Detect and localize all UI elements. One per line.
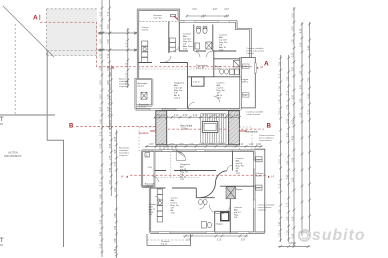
ripostiglio labels xyxy=(137,82,148,88)
svg-text:l-l': l-l' xyxy=(272,174,275,178)
svg-text:3.10: 3.10 xyxy=(110,71,112,76)
envelope white core pass xyxy=(136,10,251,110)
svg-text:0.90: 0.90 xyxy=(101,207,103,212)
svg-text:2.10: 2.10 xyxy=(101,169,103,174)
svg-text:3.10: 3.10 xyxy=(108,11,110,16)
annotation camino lower right xyxy=(258,203,276,211)
left edge reference marks xyxy=(0,117,4,245)
svg-text:mq 9.1: mq 9.1 xyxy=(142,29,149,31)
svg-text:A: A xyxy=(264,60,269,67)
door arcs upper xyxy=(166,45,220,108)
svg-text:0.30: 0.30 xyxy=(293,52,295,57)
svg-text:scoperta: scoperta xyxy=(119,85,128,88)
camera left wall xyxy=(203,77,205,86)
svg-text:0.90: 0.90 xyxy=(101,11,103,16)
svg-text:3.97: 3.97 xyxy=(287,132,289,137)
soggiorno right wall xyxy=(187,63,189,110)
camera top divider xyxy=(232,151,234,171)
svg-text:l-l': l-l' xyxy=(121,174,124,178)
envelope double walls dark pass xyxy=(136,10,251,110)
bagno label xyxy=(215,66,222,71)
room labels upper apartment xyxy=(153,14,162,20)
svg-text:3.97: 3.97 xyxy=(149,144,154,146)
loggia inner wall xyxy=(239,58,241,110)
svg-text:fumaria: fumaria xyxy=(247,52,255,55)
svg-text:0.90: 0.90 xyxy=(293,233,295,238)
section I-I dashed line xyxy=(130,174,266,176)
kitchen left wall xyxy=(142,187,150,233)
svg-text:5.17 m: 5.17 m xyxy=(139,107,146,109)
svg-text:2.45: 2.45 xyxy=(101,231,103,236)
svg-text:2.97: 2.97 xyxy=(101,94,103,99)
right pier hatched xyxy=(229,111,240,145)
bottom wall xyxy=(136,108,241,110)
svg-text:4.35: 4.35 xyxy=(110,95,112,100)
svg-text:2.10: 2.10 xyxy=(287,90,289,95)
svg-text:2.45: 2.45 xyxy=(110,167,112,172)
svg-text:4.35: 4.35 xyxy=(115,136,117,141)
svg-text:2.10: 2.10 xyxy=(287,202,289,207)
svg-text:3.97: 3.97 xyxy=(241,240,246,242)
envelope double walls dark pass xyxy=(142,151,265,233)
svg-text:0.30: 0.30 xyxy=(256,144,261,146)
svg-text:1.50: 1.50 xyxy=(110,83,112,88)
svg-text:B: B xyxy=(69,124,74,130)
svg-text:1/8: 1/8 xyxy=(234,217,238,219)
pensilina red arrow left xyxy=(150,130,157,132)
svg-text:A: A xyxy=(33,15,38,22)
svg-text:0.30: 0.30 xyxy=(115,161,117,166)
svg-text:0.30: 0.30 xyxy=(101,119,103,124)
svg-text:3.97: 3.97 xyxy=(108,24,110,29)
svg-text:scoperta: scoperta xyxy=(258,208,267,211)
svg-text:1.50: 1.50 xyxy=(110,107,112,112)
bath top-left wall xyxy=(196,197,214,199)
dimension ticks and numbers xyxy=(99,7,311,257)
loggia inner wall xyxy=(253,151,255,233)
red terrace arrow top xyxy=(174,16,178,20)
cucina top wall xyxy=(150,187,196,189)
svg-text:1.20: 1.20 xyxy=(301,70,303,75)
svg-text:0.30: 0.30 xyxy=(287,104,289,109)
svg-text:canna fumaria: canna fumaria xyxy=(246,113,261,116)
bagno left wall xyxy=(213,51,215,77)
svg-text:2.45: 2.45 xyxy=(161,115,166,117)
section A-A dashed line xyxy=(40,22,253,66)
svg-text:3.97: 3.97 xyxy=(110,179,112,184)
svg-text:3.10: 3.10 xyxy=(227,115,232,117)
svg-text:3.97: 3.97 xyxy=(213,9,218,11)
svg-text:▲: ▲ xyxy=(267,175,270,179)
svg-text:1.50: 1.50 xyxy=(209,144,214,146)
svg-text:1.80: 1.80 xyxy=(179,144,184,146)
svg-text:3.10: 3.10 xyxy=(239,144,244,146)
hall wall y51 xyxy=(179,50,236,52)
svg-text:4.85 m: 4.85 m xyxy=(242,82,249,84)
left pier hatched xyxy=(156,111,167,145)
fixtures lower apartment xyxy=(145,153,262,229)
svg-text:Bagno: Bagno xyxy=(236,189,243,191)
svg-text:1.50: 1.50 xyxy=(287,76,289,81)
svg-text:3.10: 3.10 xyxy=(174,115,179,117)
svg-text:2.10: 2.10 xyxy=(127,42,129,47)
stair steps xyxy=(201,114,226,143)
svg-text:C: C xyxy=(146,153,148,157)
bagno top wall xyxy=(214,58,241,60)
svg-text:0.30: 0.30 xyxy=(108,39,110,44)
kitchen-soggiorno wall xyxy=(138,62,188,64)
svg-text:1.05: 1.05 xyxy=(127,62,129,67)
ripostiglio room double wall xyxy=(136,79,153,109)
svg-text:1.40: 1.40 xyxy=(243,95,248,97)
svg-text:4.35: 4.35 xyxy=(155,115,160,117)
windows upper (double lines) xyxy=(150,21,256,111)
svg-text:2.97: 2.97 xyxy=(101,80,103,85)
svg-text:2.97: 2.97 xyxy=(293,26,295,31)
kitchen divider wall xyxy=(168,22,170,54)
svg-text:lvl: lvl xyxy=(261,65,264,69)
svg-text:1/12: 1/12 xyxy=(183,49,188,51)
svg-text:0.30: 0.30 xyxy=(127,72,129,77)
svg-text:1/12: 1/12 xyxy=(236,173,241,175)
terrace bottom xyxy=(147,234,191,246)
svg-text:3.10: 3.10 xyxy=(293,13,295,18)
soggiorno label xyxy=(174,82,185,100)
pensilina red arrow right xyxy=(240,130,248,132)
svg-text:0.30: 0.30 xyxy=(101,219,103,224)
closet box xyxy=(192,77,205,86)
door arcs lower xyxy=(152,165,232,214)
svg-text:3.10: 3.10 xyxy=(101,181,103,186)
svg-text:▲: ▲ xyxy=(126,175,129,179)
svg-text:3.97: 3.97 xyxy=(192,9,197,11)
svg-text:Pianerottolo: Pianerottolo xyxy=(245,131,258,134)
svg-text:1.05: 1.05 xyxy=(301,42,303,47)
svg-text:1.05: 1.05 xyxy=(293,216,295,221)
top wall xyxy=(179,22,251,58)
svg-text:stufa esterna: stufa esterna xyxy=(259,139,272,142)
svg-text:3.10: 3.10 xyxy=(203,115,208,117)
interior walls xyxy=(150,151,254,233)
svg-text:3.10: 3.10 xyxy=(234,115,239,117)
svg-text:2.45: 2.45 xyxy=(287,174,289,179)
core top and bottom walls xyxy=(167,110,229,112)
svg-text:1.50: 1.50 xyxy=(279,110,281,115)
soggiorno lower data block xyxy=(180,163,191,181)
grey area dashed border xyxy=(47,9,98,56)
svg-text:2.97: 2.97 xyxy=(186,240,191,242)
svg-text:2.97: 2.97 xyxy=(115,187,117,192)
annotation camino below upper xyxy=(246,111,264,117)
arrowheads on left dim connectors xyxy=(98,32,137,51)
svg-text:3.97: 3.97 xyxy=(224,9,229,11)
camera top-left label xyxy=(183,33,194,51)
svg-text:B: B xyxy=(267,123,272,129)
svg-text:2.10: 2.10 xyxy=(279,183,281,188)
svg-text:1.20: 1.20 xyxy=(199,144,204,146)
svg-text:1.80: 1.80 xyxy=(115,225,117,230)
svg-text:1.05: 1.05 xyxy=(287,216,289,221)
svg-text:mq 7.40: mq 7.40 xyxy=(154,18,163,20)
bedroom divider walls top xyxy=(178,22,180,52)
svg-text:1.05: 1.05 xyxy=(279,232,281,237)
svg-text:2.97: 2.97 xyxy=(293,66,295,71)
svg-text:1.80: 1.80 xyxy=(301,98,303,103)
svg-text:1.50: 1.50 xyxy=(229,144,234,146)
svg-text:4.35: 4.35 xyxy=(110,143,112,148)
svg-text:3.97: 3.97 xyxy=(101,106,103,111)
svg-text:1.20: 1.20 xyxy=(287,230,289,235)
svg-text:mq 4.6: mq 4.6 xyxy=(137,86,144,88)
svg-text:1.40: 1.40 xyxy=(256,160,261,162)
svg-text:subito: subito xyxy=(312,227,366,244)
svg-text:1.05: 1.05 xyxy=(147,167,152,169)
svg-text:0.90: 0.90 xyxy=(287,118,289,123)
svg-text:1.20: 1.20 xyxy=(189,144,194,146)
svg-text:0.90: 0.90 xyxy=(293,119,295,124)
loggia label xyxy=(242,79,249,84)
svg-text:3.10: 3.10 xyxy=(193,115,198,117)
wall above camera xyxy=(188,76,241,78)
narrow room left double wall xyxy=(142,152,155,187)
svg-text:3.97: 3.97 xyxy=(301,84,303,89)
svg-text:3.10: 3.10 xyxy=(108,53,110,58)
hall top wall xyxy=(155,170,217,172)
svg-text:1.20: 1.20 xyxy=(301,112,303,117)
svg-text:4.35: 4.35 xyxy=(293,135,295,140)
svg-text:PROPRIETA': PROPRIETA' xyxy=(4,154,22,158)
svg-text:3.10: 3.10 xyxy=(101,131,103,136)
entrance fan stair xyxy=(176,151,186,161)
svg-text:2.97: 2.97 xyxy=(110,119,112,124)
svg-text:2.10: 2.10 xyxy=(110,131,112,136)
svg-text:scoperta: scoperta xyxy=(119,154,128,157)
loggia outer wall xyxy=(242,58,256,108)
bagno walls xyxy=(215,186,255,233)
envelope white core pass xyxy=(142,151,265,233)
svg-text:0.30: 0.30 xyxy=(101,243,103,248)
fence line y115 xyxy=(0,114,55,116)
roof diagonal line xyxy=(3,6,54,57)
svg-text:1.80: 1.80 xyxy=(219,115,224,117)
boundary dashed vertical xyxy=(14,24,16,115)
hall dashed ceiling line xyxy=(139,68,240,70)
annotation camino stair right xyxy=(259,134,275,142)
svg-text:1/12: 1/12 xyxy=(171,213,176,215)
svg-text:1/8: 1/8 xyxy=(149,214,153,216)
svg-text:1.50: 1.50 xyxy=(308,77,310,82)
svg-text:1/12.6: 1/12.6 xyxy=(174,98,181,100)
svg-text:0.30: 0.30 xyxy=(183,115,188,117)
windows lower (double lines) xyxy=(158,150,255,234)
disimpegno label xyxy=(196,65,208,70)
svg-text:2.10: 2.10 xyxy=(279,159,281,164)
svg-text:2.45: 2.45 xyxy=(115,238,117,243)
svg-text:0.90: 0.90 xyxy=(101,194,103,199)
svg-text:2.10: 2.10 xyxy=(211,115,216,117)
svg-text:3.10: 3.10 xyxy=(279,73,281,78)
annotation camino right upper xyxy=(247,47,265,55)
svg-text:3.10: 3.10 xyxy=(217,240,222,242)
svg-text:4.35: 4.35 xyxy=(301,28,303,33)
room labels lower apartment xyxy=(236,157,245,175)
svg-text:1.05: 1.05 xyxy=(293,157,295,162)
annotation biancheria upper xyxy=(119,78,130,89)
annotation biancheria lower xyxy=(119,147,130,158)
svg-text:3.97: 3.97 xyxy=(108,66,110,71)
svg-text:(1.90 m): (1.90 m) xyxy=(145,186,153,188)
svg-text:2.45: 2.45 xyxy=(279,221,281,226)
fixtures upper apartment xyxy=(141,27,240,100)
svg-text:1.80: 1.80 xyxy=(287,160,289,165)
pensilina canopy dashed left xyxy=(139,127,156,151)
stair landing xyxy=(202,122,218,133)
svg-text:1.80: 1.80 xyxy=(249,144,254,146)
svg-text:1.50: 1.50 xyxy=(279,61,281,66)
hall dashed ceiling lines xyxy=(155,176,200,178)
left wall xyxy=(137,10,139,79)
svg-text:3.97: 3.97 xyxy=(101,39,103,44)
svg-text:▲: ▲ xyxy=(256,65,259,69)
curved hall wall xyxy=(201,171,227,198)
camera top-right label xyxy=(219,34,228,52)
svg-text:1.05: 1.05 xyxy=(110,155,112,160)
svg-text:3.97: 3.97 xyxy=(101,66,103,71)
svg-text:0.90: 0.90 xyxy=(308,93,310,98)
interior walls xyxy=(138,22,241,110)
grey roof area fill xyxy=(47,9,98,56)
svg-text:0.30: 0.30 xyxy=(101,143,103,148)
svg-text:1.07 m: 1.07 m xyxy=(193,82,200,84)
svg-text:1/12: 1/12 xyxy=(180,179,185,181)
terrace sliding door dashed xyxy=(140,21,179,23)
svg-text:1.20: 1.20 xyxy=(293,39,295,44)
boundary vertical wall xyxy=(47,51,63,247)
svg-text:2.45: 2.45 xyxy=(115,248,117,253)
svg-text:0.90: 0.90 xyxy=(279,209,281,214)
svg-text:1.05: 1.05 xyxy=(219,144,224,146)
svg-text:mq 4.18: mq 4.18 xyxy=(196,68,205,70)
bottom wall xyxy=(150,232,265,234)
svg-text:4.35: 4.35 xyxy=(115,149,117,154)
svg-text:3.10: 3.10 xyxy=(308,109,310,114)
svg-text:0.30: 0.30 xyxy=(101,53,103,58)
svg-text:1.05: 1.05 xyxy=(293,177,295,182)
svg-text:1.05: 1.05 xyxy=(279,99,281,104)
landing canopy dashed right xyxy=(239,127,252,151)
entry steps between stair core and lower apartment xyxy=(160,146,176,151)
section B-B dashed line xyxy=(76,127,264,130)
svg-text:Pensilina: Pensilina xyxy=(139,132,149,135)
loggia outer wall xyxy=(254,149,264,233)
svg-text:4.85 m: 4.85 m xyxy=(256,176,263,178)
camera lower-right label xyxy=(217,82,226,100)
svg-text:1.05: 1.05 xyxy=(279,86,281,91)
svg-text:2.97: 2.97 xyxy=(293,94,295,99)
svg-text:Bagno: Bagno xyxy=(217,224,224,226)
left wall xyxy=(141,151,143,187)
subito logo circle xyxy=(299,230,310,241)
svg-text:7.36 m: 7.36 m xyxy=(181,128,188,131)
svg-text:mq 12: mq 12 xyxy=(161,244,168,246)
svg-text:1.20: 1.20 xyxy=(101,24,103,29)
top wall xyxy=(142,150,254,152)
svg-text:2.45: 2.45 xyxy=(115,213,117,218)
svg-text:2.45: 2.45 xyxy=(308,45,310,50)
terrace outline xyxy=(138,10,179,22)
